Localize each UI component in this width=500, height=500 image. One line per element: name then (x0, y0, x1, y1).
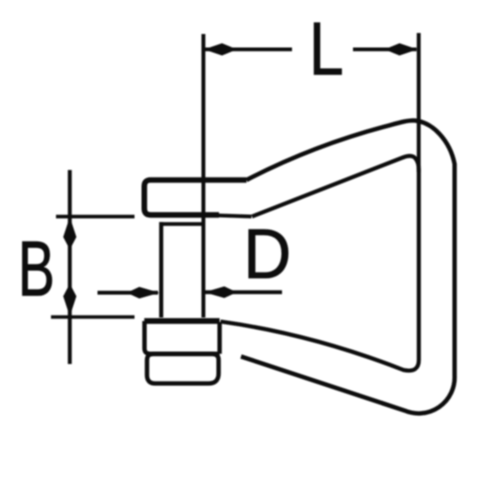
dimension D: right arrowhead (points left at pin) (204, 286, 237, 298)
bottom plate left+bottom edges (145, 321, 220, 354)
L left extension line + pin right edge (201, 34, 205, 318)
svg-text:B: B (18, 227, 55, 313)
dimension L: line left segment (205, 48, 293, 52)
dimension B: vertical dimension line (68, 170, 72, 364)
ring outer contour (241, 120, 455, 413)
top plate (upper flattened end) (144, 180, 246, 215)
label B (18, 227, 55, 313)
label L (309, 7, 344, 91)
bottom plate right edge (217, 322, 221, 354)
dimension L: line right segment (353, 48, 417, 52)
svg-text:L: L (309, 7, 344, 91)
dimension B: up arrowhead (63, 217, 76, 250)
dimension D: right line (205, 290, 282, 294)
top plate bottom edge thin continuation (217, 215, 252, 216)
dimension D: left line (98, 291, 159, 295)
ring inner contour (221, 156, 419, 371)
svg-text:D: D (243, 215, 291, 293)
dimension B: upper extension line (56, 215, 135, 219)
clevis pin left edge (159, 222, 163, 318)
pin lower head (rounded rect below bottom plate) (147, 354, 219, 383)
dimension L: right extension line (417, 33, 421, 172)
dimension L: right arrowhead (385, 43, 418, 55)
dimension B: lower extension line (51, 315, 135, 319)
bottom plate top edge (144, 318, 219, 324)
dimension D: left arrowhead (points right at pin) (127, 287, 160, 299)
dimension L: left arrowhead (204, 43, 237, 55)
label D (243, 215, 291, 293)
clevis pin top edge (160, 222, 203, 226)
dimension B: down arrowhead (63, 284, 76, 317)
